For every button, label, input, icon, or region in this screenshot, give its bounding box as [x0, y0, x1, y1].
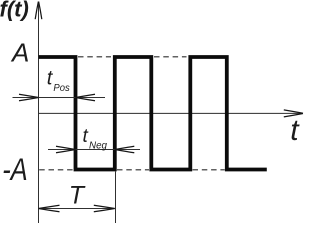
tNeg left arrow (points right, tip at x=75.5) [56, 146, 76, 153]
svg-text:Neg: Neg [89, 139, 107, 151]
horizontal axis t [39, 112, 303, 114]
tPos left arrow (points right, tip at axis) [19, 94, 39, 101]
svg-text:T: T [69, 182, 86, 210]
svg-text:-A: -A [2, 151, 28, 187]
svg-text:f(t): f(t) [0, 0, 29, 22]
vertical axis f(t) [38, 2, 40, 223]
dashed A level between pulses [78, 56, 187, 58]
tNeg right arrow (points left, tip at x=114.8) [115, 146, 135, 153]
svg-text:A: A [10, 38, 29, 68]
T left arrow (points left, tip at axis) [39, 205, 60, 212]
svg-text:t: t [83, 126, 89, 147]
dashed -A level under pulses [39, 169, 225, 171]
T dimension line [39, 208, 115, 210]
svg-text:Pos: Pos [53, 82, 70, 94]
vertical axis arrowhead [35, 2, 42, 20]
tPos right arrow (points left, tip at falling edge) [76, 94, 96, 101]
tNeg dimension line [48, 149, 140, 151]
T right arrow (points right, tip at x=114.8) [94, 205, 115, 212]
tPos dimension line [13, 97, 106, 99]
square wave [39, 57, 267, 170]
extension line at x=T [115, 172, 117, 224]
horizontal axis arrowhead [284, 110, 303, 117]
